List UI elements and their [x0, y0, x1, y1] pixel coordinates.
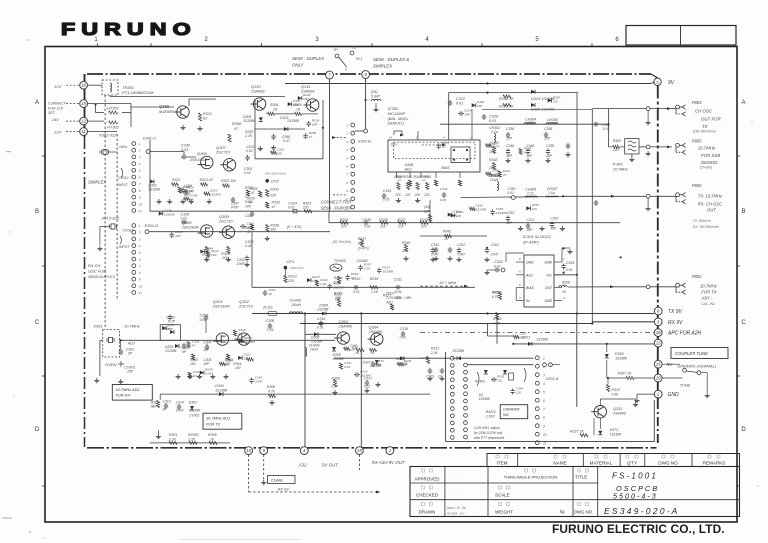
svg-text:(0V~200mV/m): (0V~200mV/m)	[265, 172, 285, 176]
svg-text:39P: 39P	[550, 227, 557, 231]
svg-text:2.2K: 2.2K	[430, 351, 439, 355]
svg-text:APC FOR A2H: APC FOR A2H	[667, 331, 702, 337]
svg-text:(0 ~ 470): (0 ~ 470)	[287, 225, 301, 229]
svg-text:11: 11	[139, 209, 142, 213]
svg-text:P805: P805	[692, 139, 702, 144]
svg-text:220: 220	[552, 99, 558, 103]
svg-text:0.01: 0.01	[353, 290, 360, 294]
svg-text:C329: C329	[489, 115, 499, 119]
svg-text:FOR TX: FOR TX	[206, 422, 221, 427]
svg-text:C212: C212	[527, 218, 535, 222]
svg-text:R333: R333	[270, 188, 279, 192]
svg-text:CAL. IN2: CAL. IN2	[701, 302, 715, 306]
svg-text:10: 10	[246, 448, 251, 453]
svg-text:DWG NO.: DWG NO.	[574, 510, 593, 515]
svg-text:APPROVED: APPROVED	[414, 477, 440, 482]
svg-text:2.2K8: 2.2K8	[485, 415, 495, 419]
svg-text:10: 10	[139, 202, 143, 206]
svg-text:R358: R358	[562, 281, 570, 285]
svg-text:X302-312: X302-312	[98, 133, 117, 138]
svg-text:10.7MHz ADJ: 10.7MHz ADJ	[116, 387, 140, 392]
svg-text:C336 = 680: C336 = 680	[394, 296, 412, 300]
svg-text:C363: C363	[491, 243, 499, 247]
svg-text:D304: D304	[215, 384, 224, 388]
svg-text:220: 220	[302, 206, 309, 210]
svg-text:D: D	[741, 427, 746, 433]
svg-text:R311: R311	[334, 293, 342, 297]
svg-text:RX CH: RX CH	[88, 263, 101, 268]
svg-text:R304: R304	[270, 103, 278, 107]
svg-text:HT302: HT302	[107, 125, 120, 130]
svg-text:18P: 18P	[477, 104, 483, 108]
svg-text:10P: 10P	[127, 370, 134, 374]
svg-text:1S1588: 1S1588	[333, 285, 344, 289]
svg-text:R322: R322	[172, 178, 180, 182]
svg-text:1S1588: 1S1588	[479, 397, 490, 401]
svg-text:C338: C338	[546, 144, 554, 148]
svg-text:1K: 1K	[296, 108, 301, 112]
svg-text:1S1588: 1S1588	[317, 308, 329, 312]
svg-text:R4312: R4312	[486, 410, 496, 414]
svg-text:39P: 39P	[526, 154, 533, 158]
svg-text:1S1588: 1S1588	[183, 189, 194, 193]
svg-text:33P: 33P	[175, 234, 181, 238]
svg-text:7: 7	[543, 408, 545, 412]
svg-text:0.047: 0.047	[457, 253, 465, 257]
svg-text:1S1588: 1S1588	[287, 119, 299, 123]
svg-text:IN: IN	[526, 299, 530, 303]
svg-text:18P: 18P	[238, 332, 244, 336]
svg-text:HT201: HT201	[107, 106, 119, 111]
svg-text:FOR TX: FOR TX	[701, 290, 717, 295]
svg-text:R332: R332	[272, 201, 281, 205]
svg-text:16: 16	[656, 362, 661, 367]
svg-text:. .: . .	[455, 486, 458, 491]
svg-text:5: 5	[543, 391, 545, 395]
svg-text:2SA999: 2SA999	[250, 90, 265, 94]
svg-text:X301-A: X301-A	[545, 377, 559, 381]
svg-text:0.02: 0.02	[364, 385, 371, 389]
svg-text:100: 100	[190, 362, 196, 366]
svg-text:1S1588: 1S1588	[452, 349, 464, 353]
svg-text:(BAL. MOD/: (BAL. MOD/	[388, 117, 409, 121]
svg-text:12V: 12V	[54, 84, 61, 89]
svg-text:33P: 33P	[167, 327, 173, 331]
svg-text:0.47: 0.47	[283, 139, 291, 143]
svg-text:100P: 100P	[237, 262, 246, 266]
svg-text:SIG: SIG	[391, 143, 397, 147]
svg-text:INPUT: INPUT	[118, 183, 129, 187]
svg-text:CLARL: CLARL	[271, 478, 284, 483]
svg-text:220: 220	[515, 390, 521, 394]
svg-text:CH308: CH308	[290, 299, 301, 303]
svg-text:11: 11	[139, 291, 142, 295]
svg-text:2SA499: 2SA499	[612, 412, 626, 416]
svg-text:48P: 48P	[506, 154, 513, 158]
svg-text:16: 16	[81, 83, 86, 88]
svg-text:0.01: 0.01	[364, 225, 371, 229]
svg-text:220: 220	[276, 151, 282, 155]
svg-text:1S1588: 1S1588	[360, 374, 371, 378]
svg-text:R345: R345	[423, 175, 431, 179]
svg-text:2SC710: 2SC710	[218, 220, 234, 224]
svg-text:TUNE: TUNE	[680, 383, 691, 388]
svg-text:Q302: Q302	[239, 299, 250, 304]
svg-text:100: 100	[489, 150, 495, 154]
svg-text:R313 1K: R313 1K	[200, 178, 214, 182]
svg-text:220: 220	[210, 253, 216, 257]
svg-text:C316: C316	[317, 317, 325, 321]
svg-text:OUT FOR: OUT FOR	[701, 117, 722, 122]
svg-text:SIMPLEX: SIMPLEX	[88, 180, 106, 185]
svg-text:1S1588: 1S1588	[189, 409, 200, 413]
svg-text:TX: 10.7MHz: TX: 10.7MHz	[698, 194, 723, 199]
svg-text:COUPLER TUNE: COUPLER TUNE	[675, 351, 708, 356]
svg-text:14: 14	[389, 136, 393, 140]
svg-text:Q307: Q307	[216, 145, 227, 150]
svg-text:ADJ.: ADJ.	[404, 168, 413, 172]
svg-text:1S1588: 1S1588	[382, 269, 393, 273]
svg-text:(34): (34)	[424, 205, 430, 209]
svg-text:9V: 9V	[667, 362, 674, 367]
svg-text:D372: D372	[610, 428, 618, 432]
svg-text:220: 220	[420, 225, 427, 229]
svg-text:100: 100	[246, 225, 251, 229]
svg-text:R303 100: R303 100	[221, 179, 236, 183]
svg-text:C304: C304	[203, 341, 211, 345]
svg-text:SEMI - DUPLEX &: SEMI - DUPLEX &	[373, 57, 409, 62]
svg-text:100: 100	[335, 297, 341, 301]
svg-text:ADJ: ADJ	[127, 342, 135, 346]
svg-text:4: 4	[543, 382, 545, 386]
svg-text:TH302: TH302	[334, 258, 347, 263]
svg-text:0.01: 0.01	[246, 149, 253, 153]
svg-text:300: 300	[270, 228, 276, 232]
svg-text:2SA495: 2SA495	[338, 325, 353, 329]
svg-text:SEMI - DUPLEX: SEMI - DUPLEX	[292, 56, 325, 61]
svg-text:(8-20): (8-20)	[263, 306, 272, 310]
svg-text:WEIGHT: WEIGHT	[495, 510, 513, 515]
svg-text:E301-D: E301-D	[145, 223, 159, 228]
svg-text:220: 220	[423, 193, 430, 197]
svg-text:R313: R313	[612, 388, 620, 392]
svg-text:11: 11	[543, 442, 547, 446]
svg-text:C353: C353	[506, 211, 514, 215]
svg-text:NAME: NAME	[553, 461, 566, 466]
svg-text:9: 9	[543, 425, 545, 429]
svg-text:2.2u: 2.2u	[490, 130, 498, 134]
svg-text:220: 220	[379, 225, 386, 229]
svg-text:0.01: 0.01	[288, 206, 295, 210]
svg-text:OSC FOR: OSC FOR	[88, 269, 106, 274]
svg-text:39P: 39P	[527, 228, 534, 232]
svg-text:11: 11	[81, 129, 86, 134]
svg-text:A: A	[741, 100, 745, 106]
svg-text:1S1588: 1S1588	[164, 212, 175, 216]
svg-text:Q303: Q303	[339, 319, 350, 324]
svg-text:(IF AMP): (IF AMP)	[523, 240, 539, 245]
svg-text:0.01: 0.01	[395, 290, 402, 294]
svg-text:0.01: 0.01	[181, 217, 188, 221]
svg-text:Nov = 6 ' 2c: Nov = 6 ' 2c	[447, 506, 466, 510]
svg-text:2.2K: 2.2K	[244, 134, 253, 138]
svg-text:GND: GND	[668, 392, 680, 398]
svg-text:R306: R306	[208, 433, 217, 437]
svg-text:220: 220	[340, 225, 347, 229]
svg-text:10.7MHz: 10.7MHz	[613, 168, 628, 172]
svg-text:45P: 45P	[546, 154, 553, 158]
svg-text:CV313: CV313	[123, 229, 134, 233]
svg-text:C357: C357	[550, 217, 558, 221]
svg-text:DEMOD.: DEMOD.	[701, 160, 719, 165]
svg-text:0.047: 0.047	[492, 144, 500, 148]
svg-text:R348: R348	[489, 158, 497, 162]
svg-text:10: 10	[139, 284, 143, 288]
svg-text:P806: P806	[692, 183, 702, 188]
svg-text:(100-380mV/m): (100-380mV/m)	[693, 130, 716, 134]
svg-text:TX 9V: TX 9V	[668, 309, 683, 315]
svg-text:33P: 33P	[376, 363, 382, 367]
svg-text:2.2K: 2.2K	[370, 290, 379, 294]
svg-text:E S 3 4 9 - 0 2 0 - A: E S 3 4 9 - 0 2 0 - A	[604, 506, 678, 516]
svg-text:kg: kg	[560, 509, 565, 514]
svg-text:COR A3H, adjust: COR A3H, adjust	[474, 426, 501, 430]
svg-text:(2mV/m): (2mV/m)	[700, 166, 712, 170]
svg-text:C: C	[741, 320, 746, 326]
svg-text:Q309: Q309	[219, 214, 230, 219]
svg-text:1S1588: 1S1588	[536, 338, 548, 342]
svg-text:1S1588: 1S1588	[243, 119, 255, 123]
svg-text:R316: R316	[493, 291, 502, 295]
svg-text:18: 18	[656, 330, 661, 335]
svg-text:(50-70mV/m): (50-70mV/m)	[333, 240, 352, 244]
svg-text:R308: R308	[232, 122, 242, 126]
svg-text:CP1: CP1	[286, 259, 294, 264]
svg-text:1.5u: 1.5u	[548, 191, 555, 195]
svg-text:FURUNO ELECTRIC CO., LTD.: FURUNO ELECTRIC CO., LTD.	[552, 522, 725, 536]
svg-text:B: B	[741, 209, 745, 215]
svg-text:1S1588: 1S1588	[210, 193, 221, 197]
svg-text:OUT: OUT	[707, 208, 716, 213]
svg-text:2SC710: 2SC710	[238, 305, 254, 309]
svg-text:R312: R312	[431, 347, 440, 351]
svg-text:47: 47	[442, 145, 446, 149]
svg-text:R317: R317	[383, 294, 391, 298]
svg-text:18P: 18P	[203, 348, 210, 352]
svg-text:2SK19GR: 2SK19GR	[181, 226, 199, 230]
svg-text:R327 1K: R327 1K	[570, 430, 585, 434]
svg-text:C342: C342	[457, 243, 465, 247]
svg-text:100uH: 100uH	[291, 303, 302, 307]
svg-text:R343: R343	[404, 175, 412, 179]
svg-text:100: 100	[519, 336, 524, 340]
svg-text:12V: 12V	[54, 130, 61, 135]
svg-text:2SC710: 2SC710	[215, 151, 231, 155]
svg-text:MATERIAL: MATERIAL	[590, 461, 613, 466]
svg-text:0.01: 0.01	[181, 148, 188, 152]
svg-text:CARRIER: CARRIER	[503, 408, 520, 412]
svg-text:TITLE: TITLE	[575, 475, 587, 480]
svg-text:0.047: 0.047	[176, 409, 184, 413]
svg-text:47: 47	[249, 201, 253, 205]
svg-text:220: 220	[394, 193, 401, 197]
svg-text:C330: C330	[181, 144, 191, 148]
svg-text:C322: C322	[494, 260, 503, 264]
svg-text:X313-323: X313-323	[101, 216, 120, 221]
svg-text:IN2: IN2	[503, 413, 509, 417]
svg-text:9V: 9V	[668, 80, 675, 86]
svg-text:RX: 100-380mV/m: RX: 100-380mV/m	[693, 225, 720, 229]
svg-text:R342: R342	[394, 175, 402, 179]
svg-text:R308: R308	[267, 385, 275, 389]
svg-text:0.01: 0.01	[489, 119, 496, 123]
svg-text:2: 2	[138, 149, 141, 153]
svg-text:OUT: OUT	[545, 286, 553, 290]
svg-text:MJE880: MJE880	[159, 109, 174, 114]
svg-text:D: D	[35, 427, 40, 433]
svg-text:DEMOD.): DEMOD.)	[388, 122, 405, 126]
svg-text:47: 47	[251, 191, 255, 195]
svg-text:220: 220	[423, 210, 430, 214]
svg-text:0.41: 0.41	[245, 244, 252, 248]
svg-text:47: 47	[272, 205, 276, 209]
svg-text:FOR RX.: FOR RX.	[116, 393, 132, 398]
svg-text:F S - 1 0 0 1: F S - 1 0 0 1	[612, 472, 656, 481]
svg-text:C311: C311	[394, 278, 402, 282]
svg-text:OPERATE (NORMAL): OPERATE (NORMAL)	[677, 364, 716, 369]
svg-text:47: 47	[192, 343, 196, 347]
svg-text:GND: GND	[544, 261, 552, 265]
svg-text:R229 1K: R229 1K	[499, 105, 514, 109]
svg-text:12: 12	[81, 119, 86, 124]
svg-text:R382: R382	[613, 139, 622, 143]
svg-text:GND: GND	[544, 299, 552, 303]
svg-text:220: 220	[349, 348, 355, 352]
svg-text:B: B	[35, 209, 39, 215]
svg-text:. .: . .	[455, 469, 458, 474]
svg-text:470P: 470P	[231, 206, 240, 210]
svg-text:2SK19GR: 2SK19GR	[212, 305, 230, 309]
svg-text:2.2K: 2.2K	[363, 267, 371, 271]
svg-text:10: 10	[543, 433, 547, 437]
svg-text:0.05: 0.05	[383, 198, 390, 202]
svg-text:Q312: Q312	[613, 407, 623, 411]
svg-text:4.7K: 4.7K	[268, 390, 276, 394]
svg-text:5 5 0 0 - 4 - 3: 5 5 0 0 - 4 - 3	[613, 492, 656, 501]
svg-text:C314: C314	[176, 401, 184, 405]
svg-text:for 25W (CO% cut): for 25W (CO% cut)	[474, 431, 503, 435]
svg-text:R301: R301	[169, 433, 178, 437]
svg-text:SEMI-DUPLEX: SEMI-DUPLEX	[88, 274, 115, 279]
svg-text:DWG NO: DWG NO	[658, 461, 678, 466]
svg-text:REMARKS: REMARKS	[703, 461, 726, 466]
svg-text:BIAS: BIAS	[441, 166, 450, 170]
svg-text:R240: R240	[402, 241, 410, 245]
svg-text:0.01: 0.01	[344, 365, 350, 369]
svg-text:6: 6	[543, 399, 545, 403]
svg-text:C313: C313	[163, 400, 171, 404]
svg-text:47: 47	[247, 230, 251, 234]
svg-text:C354: C354	[506, 127, 514, 131]
svg-text:47: 47	[309, 135, 313, 139]
svg-text:FOR 12V: FOR 12V	[48, 107, 64, 111]
svg-text:C356: C356	[544, 127, 552, 131]
svg-text:10uH: 10uH	[310, 348, 319, 352]
svg-text:1K: 1K	[273, 108, 278, 112]
svg-text:C341: C341	[431, 243, 439, 247]
svg-text:R309: R309	[331, 377, 339, 381]
svg-text:2SA495: 2SA495	[368, 330, 383, 334]
svg-text:Q310: Q310	[251, 84, 262, 89]
svg-text:R245 1K: R245 1K	[499, 97, 514, 101]
svg-text:0.01: 0.01	[267, 328, 274, 332]
svg-text:IC301 SL1612C: IC301 SL1612C	[523, 234, 552, 239]
svg-text:0.047: 0.047	[431, 253, 439, 257]
svg-text:10.7MHz: 10.7MHz	[700, 284, 718, 289]
svg-text:0.05: 0.05	[440, 198, 446, 202]
svg-text:10.7MHz: 10.7MHz	[124, 324, 140, 329]
svg-text:R342: R342	[443, 230, 452, 234]
svg-text:ONLY: ONLY	[292, 63, 305, 68]
svg-text:CP2: CP2	[271, 179, 280, 184]
svg-text:12P: 12P	[544, 137, 551, 141]
svg-text:CH OSC: CH OSC	[695, 109, 713, 114]
svg-text:18P: 18P	[312, 123, 318, 127]
svg-text:RX 9V: RX 9V	[278, 487, 290, 492]
svg-text:RL1: RL1	[356, 57, 362, 61]
svg-text:INPUT: INPUT	[119, 245, 130, 249]
svg-text:C344: C344	[383, 189, 391, 193]
svg-text:220: 220	[397, 225, 404, 229]
svg-text:P802: P802	[692, 274, 702, 279]
svg-text:1S1588: 1S1588	[496, 211, 507, 215]
svg-text:P803: P803	[692, 100, 702, 105]
svg-text:with PTT depressed.: with PTT depressed.	[474, 436, 505, 440]
svg-text:2SK19GR: 2SK19GR	[189, 158, 207, 162]
svg-text:19: 19	[656, 376, 661, 381]
svg-text:R321: R321	[203, 112, 212, 116]
svg-text:C343: C343	[440, 187, 448, 191]
svg-text:THIRD ANGLE PROJECTION: THIRD ANGLE PROJECTION	[504, 475, 558, 480]
svg-text:(0~470): (0~470)	[358, 247, 369, 251]
svg-text:RX A3H 9V OUT: RX A3H 9V OUT	[372, 460, 405, 465]
svg-text:0.01: 0.01	[566, 268, 573, 272]
svg-text:CV312: CV312	[118, 176, 128, 180]
svg-text:10.7 MHz: 10.7 MHz	[439, 280, 456, 285]
svg-text:47: 47	[422, 179, 426, 183]
svg-text:1K: 1K	[444, 237, 449, 241]
svg-text:R4302: R4302	[475, 380, 485, 384]
svg-text:OVEN: OVEN	[105, 362, 116, 367]
svg-text:C: C	[35, 320, 40, 326]
svg-text:X301-B: X301-B	[357, 140, 371, 144]
svg-text:DRAWN: DRAWN	[419, 510, 436, 515]
svg-text:D302: D302	[189, 401, 197, 405]
svg-text:CV302: CV302	[189, 414, 199, 418]
svg-text:0.01: 0.01	[244, 171, 251, 175]
svg-text:R216: R216	[370, 277, 379, 281]
svg-text:47: 47	[404, 363, 408, 367]
svg-text:CONNECT: CONNECT	[48, 102, 67, 106]
svg-text:12P: 12P	[506, 137, 513, 141]
svg-text:SIMPLEX: SIMPLEX	[373, 64, 393, 69]
svg-text:1S1588: 1S1588	[244, 340, 255, 344]
svg-text:0.047: 0.047	[205, 371, 213, 375]
svg-text:1S1588: 1S1588	[475, 208, 486, 212]
svg-text:C346: C346	[506, 144, 514, 148]
svg-text:220: 220	[496, 378, 502, 382]
svg-text:56K: 56K	[151, 405, 158, 409]
